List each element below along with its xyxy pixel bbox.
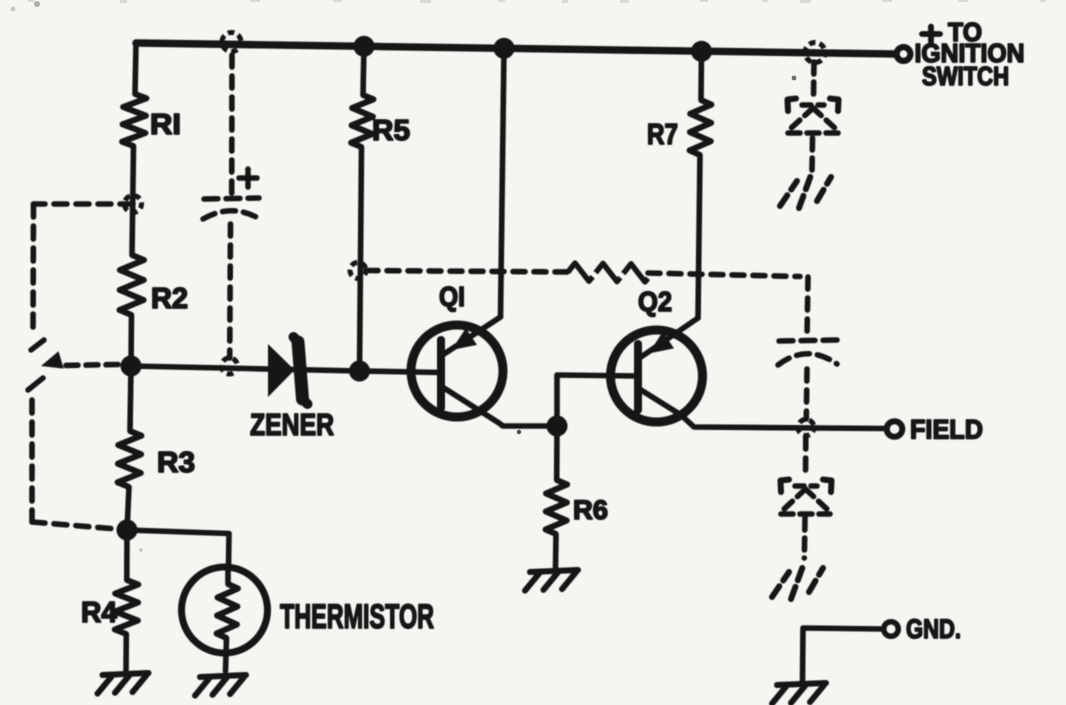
svg-text:FIELD: FIELD	[910, 415, 983, 445]
svg-text:QI: QI	[439, 281, 465, 312]
svg-text:R3: R3	[157, 447, 195, 479]
svg-text:Q2: Q2	[638, 286, 672, 317]
svg-text:SWITCH: SWITCH	[922, 61, 1009, 91]
svg-text:R5: R5	[372, 115, 410, 147]
svg-text:R6: R6	[573, 495, 608, 525]
svg-text:R7: R7	[647, 119, 678, 151]
svg-text:THERMISTOR: THERMISTOR	[280, 598, 434, 636]
svg-text:RI: RI	[150, 109, 181, 141]
svg-text:R2: R2	[151, 283, 188, 315]
svg-text:R4: R4	[81, 597, 117, 629]
svg-text:ZENER: ZENER	[250, 407, 334, 442]
svg-text:GND.: GND.	[906, 614, 961, 644]
